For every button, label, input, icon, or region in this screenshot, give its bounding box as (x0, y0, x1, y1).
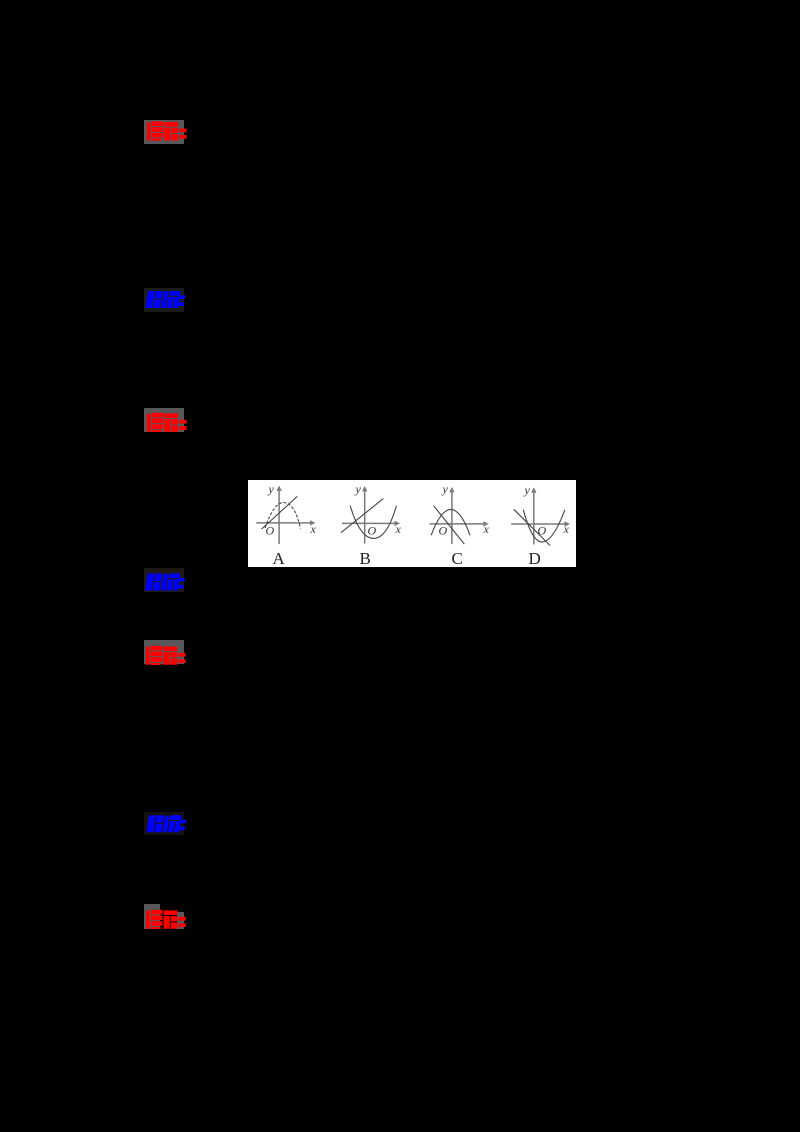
graph B: parabola (350, 506, 396, 539)
badge red 2 (variant label) (144, 408, 184, 432)
graph A: axes (256, 488, 313, 544)
graph A: straight line (261, 496, 297, 529)
graph D: parabola (523, 510, 565, 542)
svg-text:O: O (537, 523, 546, 537)
svg-text:y: y (441, 482, 448, 496)
graph B: axes (341, 489, 397, 544)
graph D: axes (511, 490, 567, 544)
svg-text:x: x (482, 522, 489, 536)
graph C: parabola (431, 509, 470, 535)
graph A: parabola (265, 502, 300, 528)
svg-text:O: O (367, 523, 376, 537)
svg-text:y: y (354, 482, 361, 496)
svg-text:C: C (451, 549, 462, 568)
svg-text:B: B (359, 549, 370, 568)
graph B: straight line (340, 498, 383, 532)
badge red 4 (variant label, stepped gray bg) (144, 904, 160, 929)
answer-options figure panel (graphs A-D) (248, 480, 577, 567)
svg-text:x: x (309, 522, 316, 536)
svg-text:A: A (272, 549, 285, 568)
graph C: straight line (433, 506, 464, 544)
svg-text:O: O (265, 523, 274, 537)
badge blue 2 (analysis label) (144, 568, 184, 592)
svg-text:D: D (528, 549, 540, 568)
svg-text:y: y (267, 482, 274, 496)
badge red 1 (example label) (144, 120, 184, 144)
svg-text:O: O (438, 523, 447, 537)
badge blue 1 (analysis label) (144, 288, 184, 312)
badge blue 3 (analysis label) (144, 812, 184, 835)
svg-text:x: x (394, 522, 401, 536)
badge red 3 (variant label) (144, 640, 184, 664)
svg-text:x: x (562, 522, 569, 536)
svg-text:y: y (523, 483, 530, 497)
graph D: straight line (513, 509, 549, 545)
graph C: axes (429, 490, 486, 544)
